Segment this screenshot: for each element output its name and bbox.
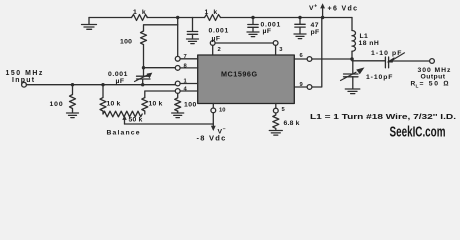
node pin7 bias junction — [176, 16, 179, 19]
wire cap to output terminal — [389, 60, 430, 62]
capacitor C4 variable arrow — [135, 74, 150, 81]
svg-text:1-10 pF: 1-10 pF — [371, 50, 403, 57]
pin 9 terminal — [307, 85, 312, 90]
node input cap — [141, 83, 144, 86]
capacitor C6 plates — [344, 74, 359, 77]
V+ terminal arrow — [322, 8, 324, 18]
node pin8 tee — [142, 66, 145, 69]
wire pin2 to pin3 — [215, 42, 273, 44]
wire pin7 vertical drop — [177, 18, 179, 57]
ground 6.8k — [269, 131, 282, 136]
capacitor C1 plates — [187, 32, 197, 35]
svg-text:−: − — [223, 127, 226, 133]
ground top-left — [82, 18, 97, 30]
wire tank to series cap — [352, 60, 385, 62]
resistor 100 (bias branch) — [141, 31, 147, 45]
variable capacitor C5 1-10 pF series plates — [385, 57, 388, 68]
variable capacitor C5 arrow — [393, 53, 405, 60]
svg-text:47: 47 — [311, 22, 320, 29]
inductor L1 coil — [352, 31, 356, 52]
svg-text:6.8 k: 6.8 k — [284, 120, 300, 127]
svg-text:+: + — [314, 4, 317, 10]
variable capacitor C6 1-10pF shunt stem — [352, 59, 354, 73]
svg-text:1-10pF: 1-10pF — [366, 74, 393, 81]
wire input line — [26, 84, 175, 86]
IC MC1596G body — [198, 55, 295, 104]
pin 4 terminal — [175, 89, 180, 94]
svg-text:10 k: 10 k — [149, 101, 163, 108]
pin 5 terminal — [273, 108, 278, 113]
pin 2 terminal — [210, 41, 215, 46]
resistor 10k left — [100, 85, 106, 114]
resistor R 1k (right) — [205, 15, 221, 21]
ground 100 under pin4 — [172, 111, 184, 118]
svg-text:Input: Input — [12, 77, 35, 84]
pin 6 terminal — [307, 57, 312, 62]
node V+ junction — [321, 16, 324, 19]
svg-text:= 50 Ω: = 50 Ω — [420, 81, 451, 88]
svg-text:L: L — [416, 84, 419, 90]
pin 1 terminal — [175, 81, 180, 86]
node input 100ohm — [71, 83, 74, 86]
resistor 100 input shunt — [70, 85, 76, 111]
wire V+ rail down to pin9 — [312, 18, 322, 88]
wire pin4 to 10k right — [145, 91, 176, 98]
node C2 junction — [251, 16, 254, 19]
wire pin8 to tee — [144, 67, 176, 69]
capacitor C4 0.001uF coupling plates — [137, 76, 151, 79]
resistor 10k right — [142, 98, 148, 114]
wire pin10 to V- arrow — [212, 113, 214, 127]
svg-text:1 k: 1 k — [133, 9, 147, 16]
output terminal circle — [430, 59, 435, 64]
svg-text:-8 Vdc: -8 Vdc — [197, 134, 227, 141]
resistor R 1k (left) — [132, 15, 148, 21]
svg-text:Balance: Balance — [107, 130, 141, 137]
wire top bias line — [89, 17, 352, 19]
svg-text:µF: µF — [263, 28, 272, 35]
pin 8 terminal — [175, 66, 180, 71]
svg-text:L1 = 1 Turn #18 Wire, 7/32'' I: L1 = 1 Turn #18 Wire, 7/32'' I.D. — [310, 112, 456, 121]
svg-text:Output: Output — [421, 74, 446, 81]
potentiometer 50k body — [103, 111, 142, 117]
svg-text:V: V — [309, 5, 314, 12]
capacitor C2 0.001uF stem — [252, 18, 254, 25]
wire jog to 100 ohm branch — [144, 25, 178, 31]
wire 100ohm to pin8 tee and cap — [142, 45, 145, 85]
pin 10 terminal — [211, 108, 216, 113]
node tank junction — [350, 57, 354, 61]
pin 3 terminal — [273, 41, 278, 46]
ground C3 — [294, 27, 306, 38]
svg-text:150 MHz: 150 MHz — [6, 70, 44, 77]
pin 7 terminal — [175, 56, 180, 61]
resistor 6.8k — [273, 113, 279, 130]
svg-text:100: 100 — [184, 102, 197, 109]
svg-text:MC1596G: MC1596G — [221, 70, 258, 79]
svg-text:SeekIC.com: SeekIC.com — [390, 125, 446, 141]
svg-text:µF: µF — [116, 78, 125, 85]
ground C6 — [345, 77, 360, 94]
svg-text:µF: µF — [212, 35, 221, 42]
input terminal circle — [22, 82, 27, 87]
capacitor C6 arrow — [341, 72, 357, 80]
svg-text:7: 7 — [184, 54, 187, 60]
svg-text:2: 2 — [218, 47, 221, 53]
node 47pF junction — [298, 16, 301, 19]
svg-text:pF: pF — [311, 29, 320, 36]
capacitor C1 0.001uF bypass stem — [192, 18, 194, 32]
wire wiper to V- node — [125, 123, 214, 125]
resistor 100 under pin4 — [175, 93, 181, 111]
potentiometer wiper arrow — [124, 120, 126, 125]
V- terminal arrow — [211, 126, 216, 131]
svg-text:18 nH: 18 nH — [359, 40, 380, 47]
ground input 100 — [67, 111, 79, 118]
wire L1 to tank node — [351, 51, 353, 59]
svg-text:100: 100 — [120, 39, 132, 46]
wire pin6 to tank — [312, 58, 352, 60]
wire top to L1 corner — [351, 18, 353, 31]
svg-text:L1: L1 — [360, 33, 369, 40]
svg-text:100: 100 — [50, 101, 64, 108]
ground C1 — [187, 34, 199, 43]
svg-text:50 k: 50 k — [129, 117, 143, 124]
svg-text:+6 Vdc: +6 Vdc — [328, 6, 359, 13]
svg-text:0.001: 0.001 — [209, 28, 230, 35]
svg-text:10: 10 — [219, 108, 225, 114]
svg-text:10 k: 10 k — [107, 101, 121, 108]
ground C2 — [247, 27, 259, 36]
capacitor C3 plates — [295, 24, 305, 27]
capacitor C2 plates — [248, 25, 258, 28]
svg-text:1 k: 1 k — [205, 9, 219, 16]
node input 10k — [101, 83, 104, 86]
capacitor C3 47pF stem — [299, 18, 301, 25]
